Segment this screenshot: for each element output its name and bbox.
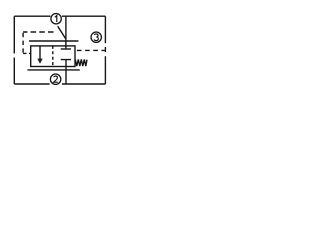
- wire right boundary lower: [104, 56, 106, 84]
- valve envelope box: [31, 46, 75, 67]
- port circle 2: [50, 74, 60, 84]
- wire port 1 stem: [65, 17, 67, 49]
- port circle 3: [91, 32, 101, 42]
- wire right boundary dashed middle: [104, 47, 106, 52]
- pilot line left horizontal: [23, 31, 53, 33]
- wire left boundary: [13, 16, 15, 84]
- wire top boundary (port 1 line): [14, 15, 105, 17]
- pilot leader diagonal to port 1 stem: [58, 26, 66, 39]
- flow arrow head: [37, 59, 42, 64]
- wire right boundary upper (port 3 line): [104, 16, 106, 43]
- port circle 1: [51, 14, 61, 24]
- pilot line left vertical: [22, 33, 24, 54]
- pilot line into valve left: [23, 52, 31, 54]
- blocked port T lower: [61, 60, 71, 67]
- wire bottom boundary (port 2 line): [14, 83, 105, 85]
- spring: [75, 59, 87, 66]
- infinite-positioning parallel line top: [29, 40, 78, 42]
- pilot line right (behind spring to port 3): [77, 49, 105, 51]
- infinite-positioning parallel line bottom: [28, 69, 80, 71]
- dashed position divider: [52, 46, 54, 67]
- flow arrow stem: [39, 46, 41, 59]
- wire port 2 stem: [65, 67, 67, 85]
- blocked port T upper: [61, 48, 71, 50]
